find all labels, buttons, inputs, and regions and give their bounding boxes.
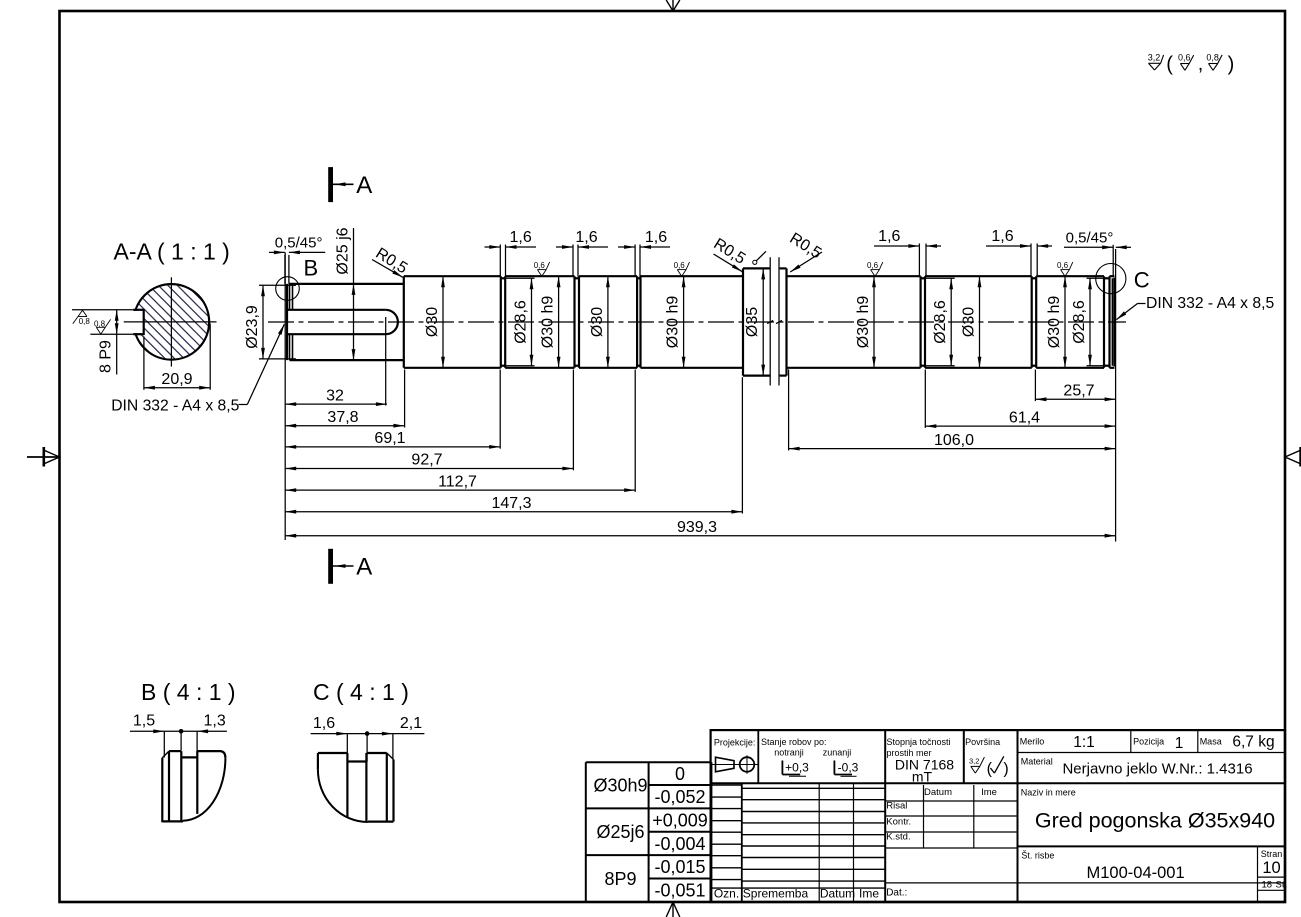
svg-text:Ø30: Ø30 [961, 307, 978, 337]
svg-text:0,6: 0,6 [674, 261, 686, 270]
svg-text:147,3: 147,3 [491, 495, 531, 512]
svg-text:Ø23,9: Ø23,9 [244, 305, 261, 349]
svg-text:0,5/45°: 0,5/45° [275, 234, 323, 251]
svg-text:1,6: 1,6 [645, 229, 667, 246]
svg-text:Material: Material [1021, 757, 1053, 767]
svg-text:Nerjavno jeklo W.Nr.: 1.4316: Nerjavno jeklo W.Nr.: 1.4316 [1062, 761, 1252, 778]
svg-text:C ( 4 : 1 ): C ( 4 : 1 ) [313, 679, 409, 705]
svg-text:B ( 4 : 1 ): B ( 4 : 1 ) [141, 679, 236, 705]
svg-text:-0,052: -0,052 [654, 787, 705, 807]
svg-text:18: 18 [1262, 880, 1273, 891]
svg-text:Stanje robov po:: Stanje robov po: [761, 737, 827, 747]
svg-text:Naziv in mere: Naziv in mere [1021, 788, 1076, 798]
svg-text:zunanji: zunanji [823, 748, 852, 758]
svg-text:1,6: 1,6 [509, 229, 531, 246]
svg-text:,: , [1198, 53, 1204, 75]
svg-text:-0,051: -0,051 [654, 881, 705, 901]
svg-text:Ø30h9: Ø30h9 [593, 776, 647, 796]
svg-text:Ø28,6: Ø28,6 [932, 300, 949, 344]
svg-text:Datum: Datum [924, 787, 952, 798]
svg-text:A: A [356, 172, 372, 199]
svg-text:Masa: Masa [1200, 737, 1222, 747]
svg-text:61,4: 61,4 [1009, 409, 1040, 426]
svg-text:): ) [1003, 761, 1008, 778]
svg-text:Datum: Datum [820, 887, 855, 901]
svg-text:Stran: Stran [1261, 849, 1283, 859]
svg-text:Ø30 h9: Ø30 h9 [1046, 296, 1063, 349]
svg-text:112,7: 112,7 [438, 473, 477, 490]
svg-text:1,5: 1,5 [133, 713, 155, 730]
svg-text:Ø30 h9: Ø30 h9 [540, 296, 557, 349]
svg-text:0,5/45°: 0,5/45° [1066, 229, 1114, 246]
svg-text:Ø28,6: Ø28,6 [513, 300, 530, 344]
svg-text:6,7 kg: 6,7 kg [1232, 734, 1274, 751]
svg-text:8P9: 8P9 [604, 869, 636, 889]
svg-text:2,1: 2,1 [400, 715, 422, 732]
svg-text:Ozn.: Ozn. [714, 887, 739, 901]
svg-text:A-A ( 1 : 1 ): A-A ( 1 : 1 ) [114, 239, 230, 265]
svg-text:B: B [304, 256, 319, 281]
svg-text:0,6: 0,6 [534, 261, 546, 270]
svg-text:Ime: Ime [981, 787, 997, 798]
svg-text:Ø30 h9: Ø30 h9 [665, 296, 682, 349]
svg-text:Ø30 h9: Ø30 h9 [855, 296, 872, 349]
svg-text:-0,015: -0,015 [654, 857, 705, 877]
svg-text:Ø28,6: Ø28,6 [1071, 300, 1088, 344]
svg-text:Stopnja točnosti: Stopnja točnosti [887, 737, 951, 747]
svg-text:8 P9: 8 P9 [98, 340, 115, 373]
svg-text:M100-04-001: M100-04-001 [1087, 864, 1185, 882]
svg-text:+0,3: +0,3 [785, 761, 809, 775]
svg-text:Sprememba: Sprememba [743, 887, 809, 901]
svg-text:mT: mT [912, 769, 933, 785]
svg-text:Risal: Risal [886, 800, 907, 811]
svg-text:25,7: 25,7 [1063, 383, 1094, 400]
svg-text:0: 0 [675, 764, 685, 784]
svg-text:Projekcije:: Projekcije: [714, 737, 756, 747]
svg-text:Pozicija: Pozicija [1133, 737, 1164, 747]
svg-text:939,3: 939,3 [677, 519, 717, 536]
svg-text:0,8: 0,8 [94, 320, 106, 329]
svg-text:DIN 332 - A4 x 8,5: DIN 332 - A4 x 8,5 [1146, 295, 1274, 312]
svg-text:10: 10 [1262, 859, 1280, 877]
svg-text:3,2: 3,2 [969, 757, 979, 766]
svg-text:Površina: Površina [965, 737, 1000, 747]
svg-text:Ø25j6: Ø25j6 [596, 822, 644, 842]
svg-text:0,6: 0,6 [867, 261, 879, 270]
svg-text:92,7: 92,7 [411, 452, 442, 469]
svg-text:Ø35: Ø35 [744, 307, 761, 337]
svg-text:Ø30: Ø30 [589, 307, 606, 337]
svg-text:Št. risbe: Št. risbe [1021, 851, 1054, 861]
svg-text:Dat.:: Dat.: [886, 888, 907, 899]
svg-text:A: A [356, 554, 372, 581]
svg-text:1,3: 1,3 [203, 713, 225, 730]
svg-text:St.: St. [1276, 880, 1288, 891]
svg-text:Ime: Ime [859, 887, 879, 901]
svg-text:-0,004: -0,004 [654, 834, 705, 854]
svg-text:3,2: 3,2 [1148, 52, 1161, 62]
svg-text:1,6: 1,6 [878, 228, 900, 245]
svg-text:1,6: 1,6 [575, 229, 597, 246]
svg-text:Ø25 j6: Ø25 j6 [335, 227, 352, 274]
svg-text:K.std.: K.std. [886, 831, 910, 842]
svg-text:Kontr.: Kontr. [886, 816, 911, 827]
svg-text:notranji: notranji [774, 748, 804, 758]
svg-text:-0,3: -0,3 [838, 761, 859, 775]
svg-text:0,6: 0,6 [1057, 261, 1069, 270]
svg-text:37,8: 37,8 [327, 409, 358, 426]
svg-text:+0,009: +0,009 [652, 810, 708, 830]
svg-text:32: 32 [326, 387, 344, 404]
svg-text:69,1: 69,1 [374, 430, 405, 447]
svg-text:Merilo: Merilo [1020, 737, 1045, 747]
svg-text:(: ( [1166, 54, 1173, 76]
svg-text:0,8: 0,8 [79, 317, 91, 326]
svg-text:1,6: 1,6 [313, 715, 335, 732]
svg-text:1:1: 1:1 [1073, 734, 1095, 751]
svg-text:106,0: 106,0 [934, 432, 974, 449]
svg-text:DIN 332 - A4 x 8,5: DIN 332 - A4 x 8,5 [111, 398, 239, 415]
svg-text:C: C [1134, 268, 1150, 293]
svg-text:1: 1 [1175, 735, 1184, 752]
svg-text:1,6: 1,6 [991, 228, 1013, 245]
svg-text:20,9: 20,9 [161, 371, 192, 388]
svg-text:): ) [1228, 54, 1235, 76]
svg-text:0,8: 0,8 [1206, 53, 1219, 63]
svg-text:Gred pogonska Ø35x940: Gred pogonska Ø35x940 [1035, 809, 1275, 833]
svg-text:0,6: 0,6 [1178, 53, 1191, 63]
svg-text:Ø30: Ø30 [424, 307, 441, 337]
